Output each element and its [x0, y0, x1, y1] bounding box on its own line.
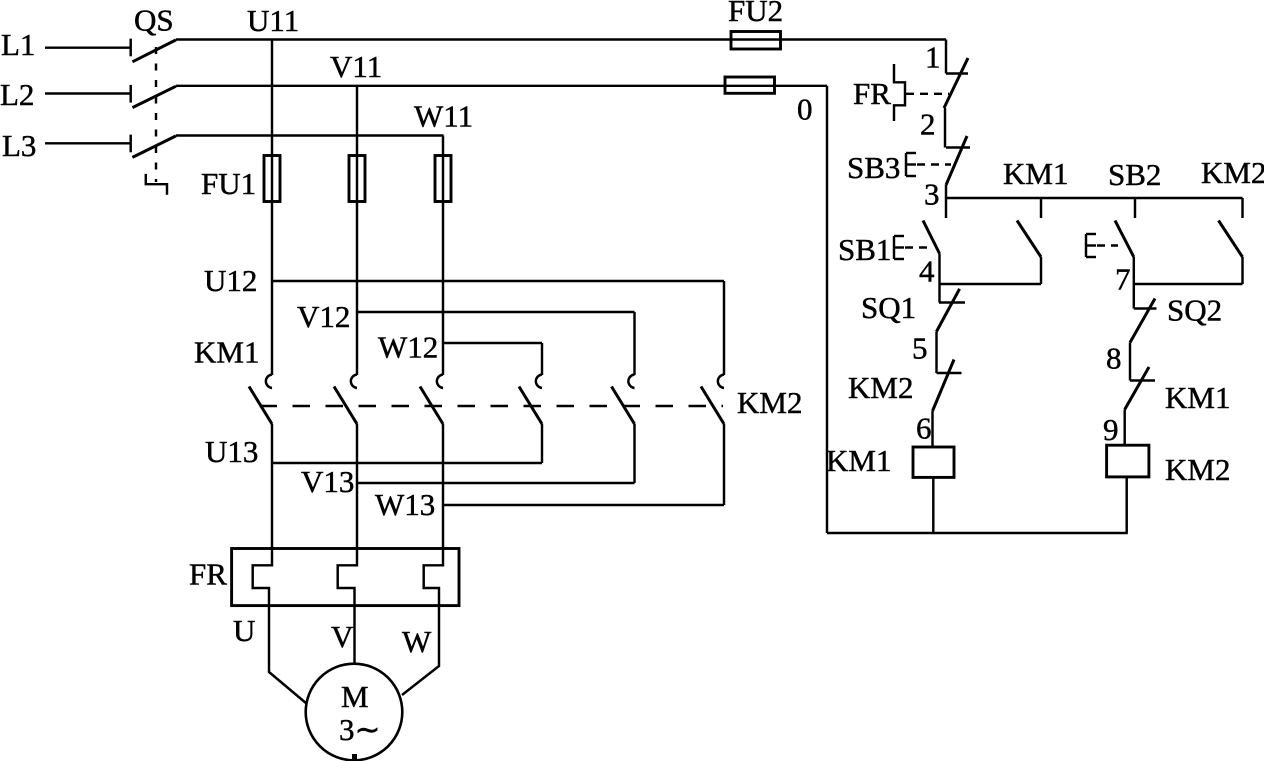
- svg-text:SB1: SB1: [838, 232, 891, 267]
- svg-text:M: M: [341, 679, 369, 714]
- svg-text:6: 6: [916, 411, 932, 446]
- svg-text:U12: U12: [204, 263, 257, 298]
- svg-text:KM2: KM2: [1165, 452, 1230, 487]
- svg-text:FR: FR: [853, 76, 891, 111]
- svg-text:U11: U11: [247, 3, 299, 38]
- svg-text:KM1: KM1: [1003, 156, 1068, 191]
- svg-text:8: 8: [1106, 341, 1122, 376]
- svg-text:L2: L2: [0, 77, 34, 112]
- svg-text:SB2: SB2: [1108, 157, 1161, 192]
- svg-text:U13: U13: [205, 434, 258, 469]
- svg-text:V12: V12: [297, 299, 350, 334]
- svg-text:3∼: 3∼: [339, 712, 380, 747]
- svg-text:W: W: [402, 624, 432, 659]
- svg-text:4: 4: [919, 254, 935, 289]
- svg-text:L1: L1: [1, 27, 35, 62]
- svg-text:V13: V13: [301, 464, 354, 499]
- svg-text:SQ1: SQ1: [861, 290, 916, 325]
- svg-text:KM1: KM1: [826, 443, 891, 478]
- svg-text:W13: W13: [375, 487, 435, 522]
- svg-text:5: 5: [912, 331, 928, 366]
- svg-text:W11: W11: [414, 99, 473, 134]
- svg-text:KM1: KM1: [1165, 380, 1230, 415]
- svg-text:KM2: KM2: [1201, 155, 1264, 190]
- svg-text:V: V: [331, 619, 354, 654]
- svg-text:V11: V11: [330, 49, 382, 84]
- svg-text:KM1: KM1: [194, 335, 259, 370]
- svg-text:FU2: FU2: [728, 0, 783, 28]
- svg-text:9: 9: [1103, 412, 1119, 447]
- svg-text:QS: QS: [134, 3, 174, 38]
- svg-text:FU1: FU1: [201, 166, 256, 201]
- svg-text:2: 2: [920, 107, 936, 142]
- svg-text:KM2: KM2: [737, 385, 802, 420]
- svg-text:1: 1: [925, 40, 941, 75]
- svg-text:W12: W12: [378, 330, 438, 365]
- svg-text:SB3: SB3: [847, 150, 900, 185]
- svg-text:0: 0: [797, 92, 813, 127]
- svg-text:L3: L3: [2, 128, 36, 163]
- svg-text:SQ2: SQ2: [1167, 293, 1222, 328]
- svg-text:3: 3: [924, 177, 940, 212]
- svg-text:FR: FR: [189, 557, 227, 592]
- svg-text:U: U: [233, 613, 255, 648]
- svg-text:7: 7: [1115, 262, 1131, 297]
- svg-text:KM2: KM2: [848, 370, 913, 405]
